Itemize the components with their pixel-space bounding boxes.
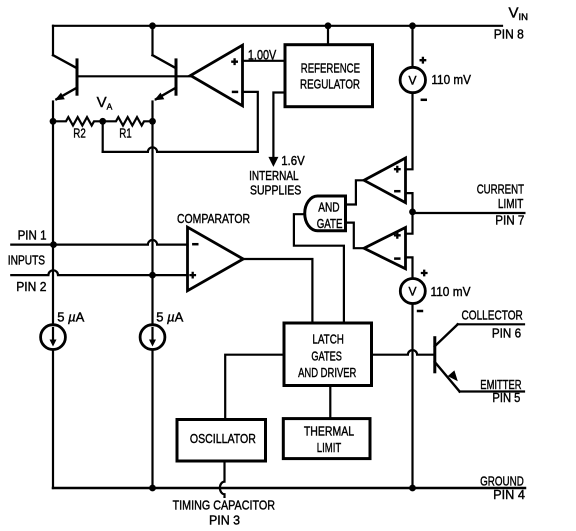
- wire AND gate output to latch: [294, 214, 344, 323]
- label minus cl2: [394, 257, 400, 260]
- AND gate: [305, 196, 346, 231]
- svg-text:V: V: [409, 74, 417, 88]
- node dot R2 left: [50, 118, 57, 125]
- svg-text:COLLECTOR: COLLECTOR: [462, 308, 523, 323]
- wire VA node down: [102, 121, 104, 152]
- node dot pin2 second rail: [149, 272, 156, 279]
- comparator U2: [188, 227, 244, 291]
- label V1 minus: [421, 99, 427, 102]
- svg-text:PIN 2: PIN 2: [16, 279, 46, 294]
- svg-text:PIN 5: PIN 5: [492, 390, 520, 405]
- label minus comparator: [192, 243, 198, 246]
- svg-text:CURRENT: CURRENT: [477, 182, 524, 197]
- wire latch output to Q3 base with hop: [372, 350, 435, 355]
- latch gates and driver box: [284, 323, 372, 386]
- wire second rail (node to pin2): [151, 121, 153, 275]
- svg-text:PIN 3: PIN 3: [209, 513, 240, 528]
- reference regulator box: [285, 45, 373, 107]
- label V2 plus: [421, 270, 428, 277]
- wire pin 1 input line with hop: [11, 240, 187, 245]
- svg-text:PIN 4: PIN 4: [493, 487, 525, 502]
- current source I2 5uA: [140, 325, 165, 350]
- transistor Q1: [53, 55, 77, 121]
- wire left rail upper (node to pin1): [52, 121, 54, 244]
- transistor Q2: [153, 55, 177, 121]
- node dot R1 right: [149, 118, 156, 125]
- wire ground rail pin 4: [53, 487, 525, 490]
- svg-text:1.00V: 1.00V: [248, 47, 277, 63]
- voltage source V2 110mV: [400, 279, 425, 304]
- svg-text:VA: VA: [97, 94, 113, 111]
- node dot top rail Q2: [149, 22, 156, 29]
- wire V1 bottom to cl1 plus: [406, 93, 413, 170]
- svg-text:110 mV: 110 mV: [431, 72, 471, 87]
- svg-text:COMPARATOR: COMPARATOR: [177, 211, 250, 226]
- svg-text:OSCILLATOR: OSCILLATOR: [190, 431, 256, 446]
- svg-text:TIMING CAPACITOR: TIMING CAPACITOR: [173, 498, 275, 513]
- label plus cl2: [394, 232, 401, 239]
- op-amp CL1 current limit comparator: [364, 158, 406, 203]
- op-amp CL2 current limit comparator: [364, 228, 406, 269]
- svg-text:REGULATOR: REGULATOR: [300, 76, 360, 91]
- wire emitter pin 5: [460, 390, 524, 392]
- wire latch to oscillator: [225, 355, 284, 420]
- svg-text:LIMIT: LIMIT: [498, 196, 524, 211]
- wire CL node to cl2 plus: [406, 212, 413, 234]
- wire 1.6V internal supplies: [273, 93, 285, 159]
- wire base line Q1 Q2 to error amp output: [77, 75, 191, 77]
- wire feedback vertical to error amp minus: [243, 92, 258, 152]
- wire top rail VIN: [53, 25, 502, 27]
- voltage source V1 110mV: [400, 67, 425, 92]
- node dot top rail main rail: [409, 22, 416, 29]
- arrowhead 1.6V: [268, 157, 278, 167]
- transistor Q3 output: [435, 324, 460, 391]
- svg-text:REFERENCE: REFERENCE: [301, 61, 360, 76]
- svg-text:5 µA: 5 µA: [57, 310, 84, 325]
- svg-text:110 mV: 110 mV: [431, 284, 471, 299]
- wire pin 2 input line with hop: [11, 270, 187, 275]
- svg-text:GATE: GATE: [317, 216, 343, 231]
- svg-text:LIMIT: LIMIT: [317, 440, 341, 455]
- wire cl2 minus to V2: [406, 257, 413, 278]
- label minus cl1: [394, 190, 400, 193]
- node dot current limit: [409, 209, 416, 216]
- wire current limit pin 7: [413, 212, 525, 214]
- current source I1 5uA: [41, 325, 66, 350]
- svg-text:PIN 7: PIN 7: [495, 212, 524, 227]
- label V1 plus: [420, 57, 427, 64]
- wire left rail pin1 to current source: [52, 245, 54, 325]
- node dot pin1 left rail: [50, 241, 57, 248]
- svg-text:SUPPLIES: SUPPLIES: [250, 183, 301, 198]
- op-amp U1 error amp: [191, 45, 243, 106]
- wire cl2 apex to AND gate input 2: [346, 223, 365, 249]
- label V2 minus: [417, 310, 423, 313]
- svg-text:INPUTS: INPUTS: [8, 252, 46, 267]
- svg-text:PIN 8: PIN 8: [494, 26, 524, 41]
- wire main rail top: [411, 26, 413, 68]
- svg-text:LATCH: LATCH: [312, 332, 344, 347]
- label plus error amp: [231, 58, 238, 65]
- label plus cl1: [394, 166, 401, 173]
- svg-text:1.6V: 1.6V: [281, 153, 305, 168]
- svg-text:V: V: [409, 285, 417, 299]
- wire Q2 collector to top rail: [151, 26, 153, 55]
- svg-text:INTERNAL: INTERNAL: [249, 168, 299, 183]
- wire left rail current source to ground: [52, 350, 54, 489]
- svg-text:GATES: GATES: [311, 349, 342, 364]
- svg-text:AND DRIVER: AND DRIVER: [298, 365, 356, 380]
- wire ref box top connector: [327, 26, 329, 45]
- svg-text:THERMAL: THERMAL: [304, 424, 354, 439]
- wire 1.00V: [243, 60, 286, 62]
- wire collector pin 6: [458, 323, 524, 325]
- wire feedback horizontal with hop: [103, 147, 258, 152]
- svg-text:VIN: VIN: [509, 5, 529, 24]
- svg-text:PIN 1: PIN 1: [18, 228, 47, 243]
- wire left vertical from top rail: [52, 26, 54, 55]
- resistor R1: [103, 117, 153, 125]
- wire timing capacitor pin 3 with hop: [220, 461, 225, 497]
- label minus error amp: [232, 91, 238, 94]
- wire cl1 minus to CL node: [406, 193, 413, 212]
- node dot ground main rail: [409, 485, 416, 492]
- label plus comparator: [189, 272, 196, 279]
- wire V2 bottom to ground rail: [411, 304, 413, 489]
- svg-text:AND: AND: [318, 200, 339, 215]
- wire second rail current source to ground: [151, 350, 153, 489]
- thermal limit box: [283, 419, 370, 459]
- wire cl1 apex to AND gate input 1: [346, 180, 365, 204]
- svg-text:PIN 6: PIN 6: [492, 326, 521, 341]
- oscillator box: [177, 420, 266, 462]
- node dot ground second rail: [149, 485, 156, 492]
- svg-text:R1: R1: [119, 126, 132, 141]
- wire comparator output to latch: [243, 259, 312, 323]
- node dot VA: [99, 118, 106, 125]
- wire latch to thermal limit: [329, 386, 331, 419]
- wire second rail pin2 to current source: [151, 275, 153, 325]
- svg-text:5 µA: 5 µA: [156, 310, 183, 325]
- node dot top rail ref box: [325, 22, 332, 29]
- svg-text:R2: R2: [73, 126, 86, 141]
- resistor R2: [53, 117, 103, 125]
